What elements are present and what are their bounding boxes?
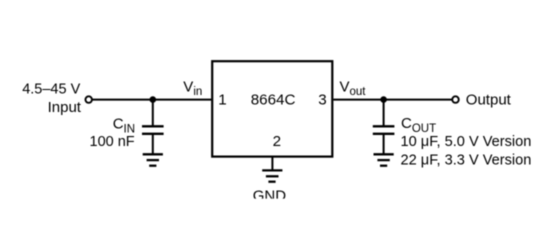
- wire junction down to CIN: [152, 100, 154, 126]
- svg-text:10 μF, 5.0 V Version: 10 μF, 5.0 V Version: [401, 134, 532, 150]
- wire CIN to ground: [152, 134, 154, 155]
- node junction CIN: [150, 96, 157, 103]
- svg-text:GND: GND: [253, 188, 287, 205]
- svg-text:Output: Output: [466, 91, 512, 108]
- capacitor COUT: [373, 125, 395, 127]
- svg-text:8664C: 8664C: [251, 91, 296, 108]
- label GND (clipped at bottom): [253, 188, 287, 205]
- ground (input): [143, 154, 163, 165]
- svg-text:3: 3: [318, 91, 326, 108]
- wire pin3 to output: [333, 99, 452, 101]
- pin 2 wire: [271, 157, 273, 171]
- capacitor CIN: [142, 125, 164, 127]
- IC U1 8664C box: [212, 61, 332, 156]
- ground (output): [374, 154, 394, 165]
- svg-text:4.5–45 V: 4.5–45 V: [22, 82, 80, 98]
- wire input to pin1: [92, 99, 211, 101]
- svg-text:CIN: CIN: [113, 115, 135, 135]
- node junction COUT: [380, 96, 387, 103]
- svg-text:1: 1: [218, 91, 226, 108]
- svg-text:Vin: Vin: [183, 78, 202, 98]
- wire junction down to COUT: [383, 100, 385, 126]
- svg-text:COUT: COUT: [401, 115, 436, 135]
- svg-text:Input: Input: [48, 99, 82, 116]
- svg-text:2: 2: [273, 133, 281, 150]
- wire COUT to ground: [383, 134, 385, 155]
- output terminal: [452, 96, 459, 103]
- ground (GND pin 2): [262, 170, 282, 181]
- svg-text:22 μF, 3.3 V Version: 22 μF, 3.3 V Version: [401, 153, 532, 169]
- input terminal: [85, 96, 92, 103]
- svg-text:Vout: Vout: [340, 78, 367, 98]
- svg-text:100 nF: 100 nF: [90, 134, 135, 150]
